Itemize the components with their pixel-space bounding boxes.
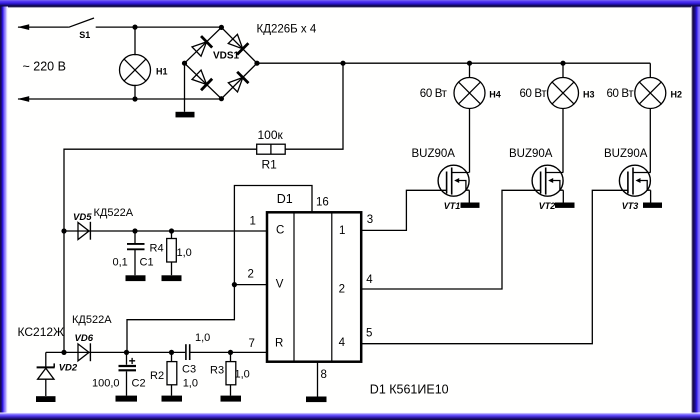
- svg-text:VD5: VD5: [73, 212, 92, 223]
- arrow AC bottom: [18, 96, 30, 102]
- svg-text:BUZ90A: BUZ90A: [509, 148, 553, 160]
- switch S1: [69, 18, 94, 27]
- lamp H3: [548, 78, 579, 109]
- wire pin2 V: [234, 284, 266, 286]
- wire zener branch: [45, 352, 47, 396]
- wire bridge output right: [257, 62, 650, 64]
- lamp H2: [635, 78, 666, 109]
- svg-text:R: R: [275, 338, 283, 350]
- svg-text:~ 220 В: ~ 220 В: [23, 60, 66, 74]
- svg-text:+: +: [129, 354, 136, 368]
- wire lamp H2 branch: [649, 63, 651, 202]
- svg-text:5: 5: [366, 328, 372, 340]
- wire pin4 to VT2 gate: [362, 190, 541, 289]
- svg-text:Н3: Н3: [583, 89, 595, 99]
- wire top AC line: [18, 26, 69, 28]
- bridge diode D-bottom-right: [227, 72, 248, 93]
- svg-text:4: 4: [366, 274, 373, 286]
- svg-text:C: C: [276, 225, 284, 237]
- wire pin5 to VT3 gate: [362, 190, 628, 343]
- svg-text:3: 3: [367, 214, 373, 226]
- svg-text:C3: C3: [182, 364, 196, 376]
- wire switch to bridge top: [96, 26, 222, 28]
- svg-text:60 Вт: 60 Вт: [420, 88, 448, 100]
- svg-text:Н2: Н2: [671, 89, 683, 99]
- ground C2: [116, 396, 138, 402]
- svg-text:60 Вт: 60 Вт: [520, 88, 548, 100]
- svg-text:КД522А: КД522А: [94, 207, 134, 219]
- svg-text:Н4: Н4: [489, 89, 501, 99]
- svg-text:1,0: 1,0: [177, 247, 192, 259]
- svg-text:1: 1: [250, 216, 256, 228]
- svg-text:2: 2: [248, 269, 254, 281]
- svg-text:1,0: 1,0: [235, 369, 250, 381]
- wire R4 branch: [171, 231, 173, 275]
- ground bridge: [176, 112, 195, 118]
- wire R3 branch: [230, 352, 232, 395]
- zener VD2: [37, 363, 55, 379]
- svg-text:R2: R2: [150, 370, 164, 382]
- wire C2 branch: [126, 352, 128, 395]
- ground C1: [126, 275, 146, 281]
- bridge diode D-top-right: [227, 33, 248, 54]
- svg-text:1,0: 1,0: [195, 332, 210, 344]
- svg-text:8: 8: [321, 369, 327, 381]
- svg-text:КС212Ж: КС212Ж: [18, 325, 65, 339]
- transistor VT2: [532, 165, 563, 196]
- svg-text:100к: 100к: [258, 128, 284, 142]
- svg-text:R4: R4: [150, 243, 164, 255]
- svg-text:2: 2: [339, 284, 345, 296]
- wire bottom AC line: [18, 98, 221, 100]
- svg-text:7: 7: [249, 338, 255, 350]
- wire bottom row VD6: [46, 351, 267, 353]
- transistor VT1: [438, 165, 469, 196]
- wire C1 branch: [134, 231, 136, 275]
- svg-text:0,1: 0,1: [113, 257, 128, 269]
- svg-text:D1 К561ИЕ10: D1 К561ИЕ10: [370, 383, 449, 397]
- svg-text:60 Вт: 60 Вт: [607, 88, 635, 100]
- ground VT2: [555, 203, 575, 208]
- capacitor C3: [186, 344, 190, 360]
- resistor R3: [226, 362, 236, 385]
- svg-text:V: V: [276, 278, 284, 290]
- svg-text:R1: R1: [262, 158, 278, 172]
- resistor R2: [167, 362, 177, 385]
- svg-text:VT3: VT3: [622, 201, 639, 211]
- border frame bottom: [0, 411, 700, 420]
- ground pin8: [306, 397, 327, 403]
- border frame left: [0, 7, 8, 413]
- svg-text:Н1: Н1: [156, 66, 168, 76]
- svg-text:C2: C2: [132, 377, 146, 389]
- svg-text:16: 16: [316, 197, 329, 209]
- wire R1 from output: [64, 63, 343, 352]
- wire D1 box / pin16: [234, 186, 312, 285]
- svg-text:S1: S1: [79, 30, 90, 40]
- svg-text:BUZ90A: BUZ90A: [412, 148, 456, 160]
- wire lamp H3 branch: [562, 63, 564, 202]
- svg-text:VD2: VD2: [59, 363, 78, 374]
- lamp H4: [454, 78, 485, 109]
- ground VD2: [36, 396, 56, 402]
- bridge diode D-bottom-left: [191, 69, 212, 90]
- bridge VDS1 diamond: [185, 27, 258, 98]
- svg-text:4: 4: [339, 337, 346, 349]
- diode VD6: [78, 343, 90, 361]
- capacitor C2: [119, 366, 137, 370]
- svg-text:КД522А: КД522А: [72, 314, 112, 326]
- bridge diode D-top-left: [191, 36, 212, 57]
- IC D1 body: [267, 212, 361, 361]
- border frame right: [691, 7, 700, 413]
- svg-text:100,0: 100,0: [92, 377, 120, 389]
- svg-text:VT2: VT2: [539, 201, 556, 211]
- wire pin8 ground: [317, 362, 319, 397]
- svg-text:1: 1: [339, 225, 345, 237]
- wire bridge left vertex to ground: [184, 63, 186, 112]
- ground R2: [162, 396, 183, 402]
- transistor VT3: [619, 165, 650, 196]
- ground R4: [162, 275, 182, 281]
- svg-text:КД226Б x 4: КД226Б x 4: [257, 24, 317, 36]
- ground VT3: [643, 203, 662, 208]
- resistor R1: [257, 144, 286, 154]
- svg-text:VDS1: VDS1: [213, 51, 240, 62]
- svg-text:R3: R3: [210, 365, 224, 377]
- border frame top: [0, 0, 700, 8]
- svg-text:1,0: 1,0: [183, 377, 198, 389]
- wire pin3 to VT1 gate: [362, 190, 447, 230]
- wire lamp H4 branch: [468, 63, 470, 202]
- svg-text:BUZ90A: BUZ90A: [604, 148, 648, 160]
- ground R3: [221, 396, 242, 402]
- svg-text:C1: C1: [140, 257, 154, 269]
- capacitor C1: [127, 244, 145, 249]
- wire lamp H1 branch: [134, 27, 136, 99]
- wire R2 branch: [171, 352, 173, 395]
- wire VD5 row to pin C: [64, 230, 267, 232]
- lamp H1: [120, 55, 151, 86]
- svg-text:VD6: VD6: [75, 333, 94, 344]
- svg-text:D1: D1: [277, 192, 293, 206]
- wire V node to C2 node: [127, 285, 234, 352]
- arrow AC top: [18, 24, 30, 30]
- ground VT1: [461, 203, 480, 208]
- resistor R4: [167, 239, 177, 263]
- svg-text:VT1: VT1: [444, 201, 461, 211]
- diode VD5: [78, 222, 90, 240]
